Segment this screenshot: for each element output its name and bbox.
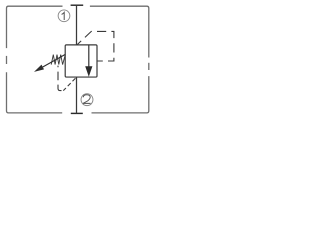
adjustment arrow head [34,65,44,72]
port 1 digit [62,12,65,20]
cartridge boundary top-left segment [7,6,63,48]
wire port 1 to valve inlet [76,5,78,45]
port label circle 1 [58,10,70,22]
adjustment arrow shaft [43,54,66,67]
drain line (dashed) from spring chamber to outlet [58,66,63,91]
port label circle 2 [81,94,93,106]
port 1 terminal bar [71,4,84,6]
drain line diagonal (dashed) [63,77,76,90]
cartridge boundary right-side dash [148,63,150,70]
cartridge boundary bottom-left segment [7,72,63,113]
port 2 digit [83,95,91,104]
flow path arrow inside valve [88,45,90,68]
valve body V1 [65,45,97,77]
cartridge boundary left-side dash [6,56,8,64]
cartridge boundary top-right segment [90,6,149,57]
wire valve outlet to port 2 [76,77,78,113]
port 2 terminal bar [71,112,83,114]
pilot line (dashed) from inlet to right side of valve [77,31,114,61]
cartridge boundary bottom-right segment [92,76,149,113]
spring [51,55,65,65]
